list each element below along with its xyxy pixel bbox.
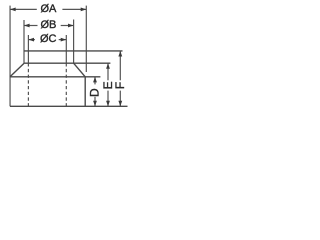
extension line left of dimension ØC — [27, 35, 29, 63]
dimension line ØA right segment — [62, 8, 86, 10]
arrowhead E top — [106, 63, 110, 69]
dimension line ØB right segment — [61, 25, 74, 27]
arrowhead ØC left — [28, 38, 34, 42]
dimension line F upper segment — [119, 51, 121, 80]
arrowhead F top — [118, 51, 122, 57]
arrowhead ØC right — [61, 38, 67, 42]
part bottom edge extended right for dimensions D E F — [10, 105, 128, 107]
arrowhead E bottom — [106, 101, 110, 107]
svg-text:F: F — [113, 82, 127, 89]
arrowhead ØA left — [10, 8, 16, 12]
hidden hole line left (dashed) — [27, 63, 29, 106]
dimension line D upper segment — [94, 77, 96, 85]
svg-text:ØC: ØC — [40, 33, 57, 45]
hidden hole line right (dashed) — [65, 63, 67, 106]
part top face edge extended right for dimension F — [24, 50, 122, 52]
part left taper diagonal — [10, 63, 24, 77]
arrowhead ØA right — [81, 8, 87, 12]
part right taper diagonal — [74, 63, 86, 77]
dimension line D lower segment — [94, 97, 96, 107]
part lower block right edge — [84, 77, 86, 107]
arrowhead F bottom — [118, 101, 122, 107]
arrowhead D top — [93, 77, 97, 83]
dimension line ØC right segment — [59, 39, 67, 41]
extension line right of dimension ØA — [85, 6, 87, 72]
extension line left of dimension ØA continuing as lower block left edge — [9, 6, 11, 107]
dimension line E lower segment — [107, 91, 109, 107]
arrowhead ØB left — [24, 24, 30, 28]
dimension line ØC left segment — [28, 39, 35, 41]
dimension line F lower segment — [119, 91, 121, 107]
arrowhead D bottom — [93, 101, 97, 107]
arrowhead ØB right — [68, 24, 74, 28]
extension line left of dimension ØB continuing as top section left side — [23, 20, 25, 63]
dimension line ØB left segment — [24, 25, 38, 27]
svg-text:D: D — [88, 88, 102, 97]
svg-text:ØB: ØB — [40, 19, 56, 31]
part shoulder base edge extended right for dimension D — [10, 76, 100, 78]
dimension line E upper segment — [107, 63, 109, 80]
extension line right of dimension ØC — [65, 35, 67, 63]
extension line right of dimension ØB continuing as top section right side — [73, 20, 75, 64]
svg-text:ØA: ØA — [40, 3, 57, 15]
dimension line ØA left segment — [10, 8, 37, 10]
part shoulder edge extended right for dimension E — [24, 62, 110, 64]
